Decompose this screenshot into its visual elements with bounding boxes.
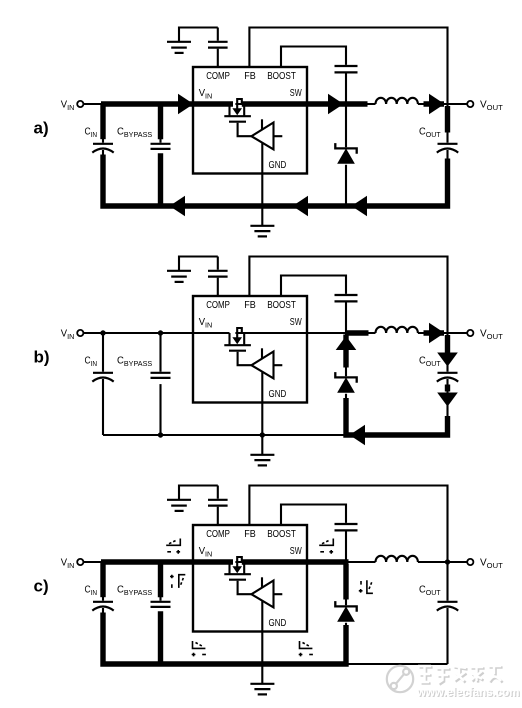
parasitic glyph 5: return rail left [192, 641, 206, 656]
return arrow near CBYPASS [170, 196, 186, 217]
bold CIN lower + ground rail + diode lower [103, 613, 346, 665]
current arrow on SW rail [328, 94, 344, 115]
bold input rail [101, 559, 193, 564]
bold CBYPASS leads [158, 104, 163, 206]
return arrow near diode [352, 196, 368, 217]
arrow down out of COUT [437, 393, 458, 407]
bold input rail [101, 101, 193, 106]
faux hanzi watermark strokes: white top layer [418, 666, 501, 683]
parasitic glyph 2: SW trace [319, 539, 333, 554]
bold overlay for circuit c [101, 562, 349, 664]
bold overlay for circuit a [101, 104, 448, 206]
junction dot rail CIN [100, 330, 105, 335]
bold CIN upper lead [100, 562, 105, 597]
bold CBYPASS leads [158, 562, 163, 664]
watermark url text [416, 687, 521, 700]
svg-text:b): b) [34, 348, 50, 367]
junction dot rail CBYPASS [158, 330, 163, 335]
return arrow mid rail [293, 196, 309, 217]
bold internal rail [193, 559, 307, 564]
bold SW rail to inductor [307, 101, 368, 106]
bold diode branch lower + return rail + COUT lower [346, 398, 448, 435]
bold SW rail to diode [307, 559, 349, 564]
node dot at output [445, 559, 450, 564]
svg-text:a): a) [34, 119, 49, 138]
return arrow toward diode [350, 425, 366, 446]
parasitic glyph 3: CBYPASS lead [170, 575, 185, 588]
arrow down into COUT [437, 353, 458, 367]
arrow into output node [429, 323, 445, 344]
bold COUT mid stub [445, 385, 450, 392]
bold COUT upper [445, 335, 450, 353]
parasitic glyph 6: return rail right [299, 641, 313, 656]
parasitic glyph 1: input trace [166, 539, 180, 554]
bold CIN upper lead [100, 104, 105, 139]
junction dot return CBYPASS [158, 432, 163, 437]
parasitic glyph 4: diode lead [359, 580, 373, 593]
bold overlay for circuit b [346, 333, 448, 435]
bold diode upper lead [343, 564, 348, 600]
watermark bottom right [387, 666, 521, 700]
bold CIN lower + ground rail + COUT lower [103, 155, 448, 207]
bold COUT upper lead [445, 106, 450, 133]
bold diode branch upper [343, 335, 348, 368]
svg-text:c): c) [34, 577, 49, 596]
elecfans logo circle [387, 666, 413, 692]
current arrow into output node [429, 94, 445, 115]
freewheeling arrow up [336, 336, 357, 350]
faux hanzi watermark strokes: gray shadow layer [420, 668, 503, 685]
svg-text:www.elecfans.com: www.elecfans.com [416, 687, 519, 699]
junction dot return GND [260, 432, 265, 437]
bold output wire segment [424, 101, 445, 106]
current arrow into VIN pin [178, 94, 194, 115]
bold output wire segment [424, 330, 445, 335]
bold SW segment [346, 330, 369, 335]
bold internal rail [193, 101, 307, 106]
